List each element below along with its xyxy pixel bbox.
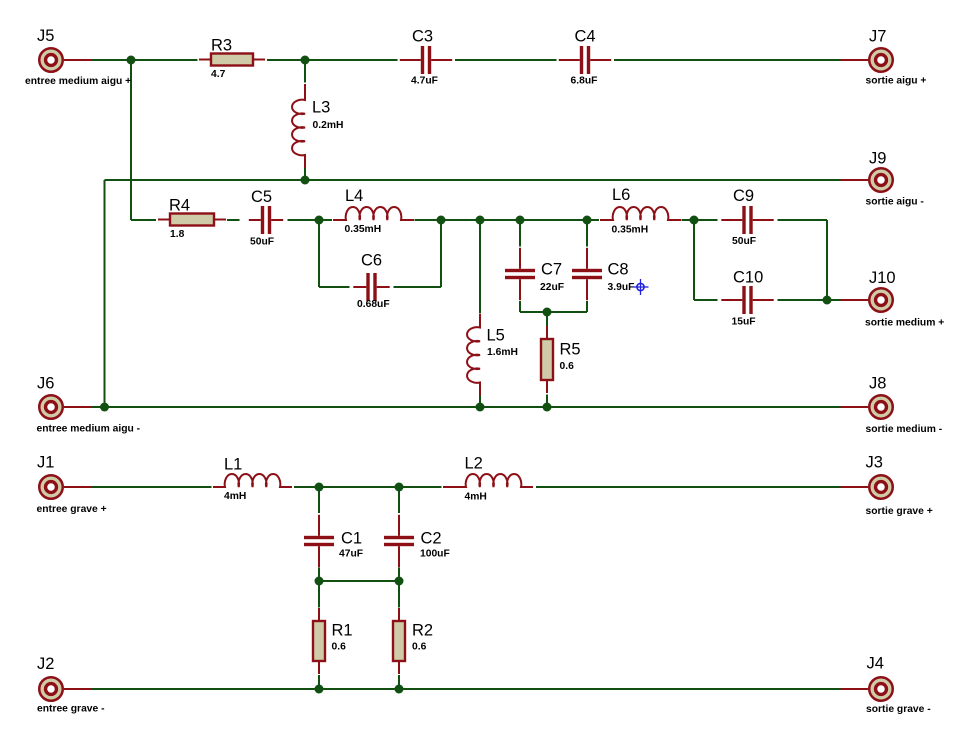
wire node B to L4 (319, 219, 332, 221)
connector J9 (869, 168, 893, 192)
label C3 (412, 28, 433, 46)
value R4 = 1.8 (170, 229, 185, 240)
wire R2 to rowI (398, 675, 400, 689)
inductor L1 (213, 474, 292, 487)
wire vertical x694 down to rowD (693, 220, 695, 300)
wire node B down to C6 row (318, 220, 320, 287)
label C4 (575, 28, 596, 46)
svg-text:C8: C8 (608, 261, 629, 279)
svg-text:sortie grave +: sortie grave + (866, 506, 933, 517)
wire node I down to C1 (318, 487, 320, 513)
svg-text:4.7: 4.7 (211, 69, 226, 80)
connector J7 pin (841, 59, 869, 61)
wire L6 to node G (682, 219, 695, 221)
capacitor C4 (559, 46, 611, 74)
connector J5 pin (64, 59, 92, 61)
wire R1 to rowI (318, 675, 320, 689)
value R2 = 0.6 (412, 642, 427, 653)
wire vertical x104 rowB to rowF (104, 180, 106, 407)
value R5 = 0.6 (560, 361, 575, 372)
connector J1 (39, 475, 63, 499)
svg-text:4mH: 4mH (465, 492, 487, 503)
svg-text:1.6mH: 1.6mH (487, 347, 518, 358)
junction node A (131,60) (127, 56, 136, 65)
svg-text:J1: J1 (37, 454, 54, 472)
resistor R1 (313, 608, 325, 674)
label J7 (869, 28, 886, 46)
svg-text:sortie grave -: sortie grave - (866, 704, 931, 715)
junction node F (587,220) (583, 216, 592, 225)
wire vertical x827 down to rowD (826, 220, 828, 300)
resistor R5 (541, 326, 553, 393)
label C9 (733, 187, 754, 205)
junction node H (547,312) (543, 308, 552, 317)
svg-text:J3: J3 (866, 454, 883, 472)
label J7 description (866, 76, 927, 87)
wire C10 to J10 (778, 299, 842, 301)
label R3 (211, 37, 232, 55)
capacitor C7 (505, 248, 535, 300)
svg-text:0.6: 0.6 (560, 361, 575, 372)
junction node D (480,220) (476, 216, 485, 225)
connector J3 pin (841, 486, 869, 488)
connector J5 (39, 48, 63, 72)
svg-text:R5: R5 (560, 341, 581, 359)
label C1 (341, 530, 362, 548)
svg-text:sortie aigu +: sortie aigu + (866, 76, 927, 87)
connector J6 (39, 395, 63, 419)
capacitor C6 (353, 273, 389, 301)
label L5 (487, 327, 505, 345)
svg-text:4.7uF: 4.7uF (411, 76, 438, 87)
value L4 = 0.35mH (345, 224, 382, 235)
value L6 = 0.35mH (612, 225, 649, 236)
junction node E (520,220) (516, 216, 525, 225)
wire C6 row right (394, 286, 442, 288)
label C2 (421, 530, 442, 548)
svg-text:22uF: 22uF (540, 282, 564, 293)
wire rowF: J6 to J8 (92, 406, 842, 408)
wire node D down to L5 (479, 220, 481, 313)
connector J1 pin (64, 486, 92, 488)
wire node C to node D (441, 219, 480, 221)
connector J2 (39, 677, 63, 701)
label J8 description (866, 424, 943, 435)
value C7 = 22uF (540, 282, 564, 293)
wire node D to node E (480, 219, 520, 221)
connector J4 (869, 677, 893, 701)
svg-text:C2: C2 (421, 530, 442, 548)
junction node I (319,487) (315, 483, 324, 492)
svg-text:15uF: 15uF (732, 317, 756, 328)
svg-text:J2: J2 (37, 655, 54, 673)
connector J4 pin (841, 688, 869, 690)
svg-text:sortie medium +: sortie medium + (865, 318, 944, 329)
capacitor C3 (400, 46, 452, 74)
capacitor C1 (304, 515, 334, 567)
svg-text:R1: R1 (332, 622, 353, 640)
wire rowD to C10 (694, 299, 718, 301)
svg-text:entree grave -: entree grave - (37, 704, 105, 715)
svg-text:L4: L4 (345, 187, 363, 205)
label J10 description (865, 318, 944, 329)
connector J8 (869, 395, 893, 419)
value C10 = 15uF (732, 317, 756, 328)
svg-text:L6: L6 (612, 186, 630, 204)
svg-text:L3: L3 (312, 99, 330, 117)
connector J2 pin (64, 688, 92, 690)
wire node E to node F (520, 219, 587, 221)
value L1 = 4mH (224, 491, 246, 502)
wire node K down to R1 (318, 581, 320, 608)
svg-text:entree grave +: entree grave + (37, 504, 107, 515)
svg-text:C7: C7 (541, 261, 562, 279)
label C7 (541, 261, 562, 279)
label C8 (608, 261, 629, 279)
wire node J to L2 (399, 486, 442, 488)
junction node K (319,581) (315, 577, 324, 586)
svg-text:50uF: 50uF (732, 236, 756, 247)
label R4 (169, 197, 190, 215)
wire C1 to node K (318, 568, 320, 582)
wire L3 to rowB (304, 168, 306, 181)
svg-text:47uF: 47uF (339, 549, 363, 560)
svg-text:J9: J9 (869, 150, 886, 168)
label J10 (869, 269, 896, 287)
capacitor C9 (721, 206, 773, 234)
label R1 (332, 622, 353, 640)
inductor L5 (467, 314, 480, 396)
svg-text:R3: R3 (211, 37, 232, 55)
svg-text:L1: L1 (224, 456, 242, 474)
svg-text:0.6: 0.6 (412, 642, 427, 653)
junction rowI R2 (399,689) (395, 685, 404, 694)
value R1 = 0.6 (332, 642, 347, 653)
label J2 description (37, 704, 105, 715)
svg-text:J6: J6 (37, 375, 54, 393)
svg-text:C4: C4 (575, 28, 596, 46)
wire C8 to rowE (586, 301, 588, 312)
wire rowE across (520, 311, 587, 313)
junction node J (399,487) (395, 483, 404, 492)
capacitor C2 (384, 515, 414, 567)
wire node G to C9 (694, 219, 718, 221)
label L1 (224, 456, 242, 474)
connector J7 (869, 48, 893, 72)
wire L2 to J3 (536, 486, 841, 488)
svg-text:50uF: 50uF (250, 237, 274, 248)
capacitor C5 (249, 206, 283, 234)
junction node L (399,581) (395, 577, 404, 586)
connector J3 (869, 475, 893, 499)
svg-text:C6: C6 (361, 252, 382, 270)
resistor R2 (393, 608, 405, 674)
wire vertical node131 down (130, 60, 132, 220)
inductor L2 (443, 474, 533, 487)
label J4 description (866, 704, 931, 715)
svg-text:J10: J10 (869, 269, 896, 287)
svg-text:R2: R2 (412, 622, 433, 640)
label J6 (37, 375, 54, 393)
junction L3 bottom (305,180) (301, 176, 310, 185)
connector J10 (869, 288, 893, 312)
svg-text:0.35mH: 0.35mH (345, 224, 382, 235)
connector J10 pin (841, 299, 869, 301)
wire net A5: C4 to J7 (614, 59, 841, 61)
label J3 description (866, 506, 933, 517)
svg-text:0.35mH: 0.35mH (612, 225, 649, 236)
wire C6 row up to node C (440, 220, 442, 287)
svg-text:100uF: 100uF (420, 549, 450, 560)
wire node J down to C2 (398, 487, 400, 513)
label C10 (733, 269, 763, 287)
value C6 = 0.68uF (357, 299, 390, 310)
resistor R4 (158, 214, 226, 226)
svg-text:J5: J5 (37, 27, 54, 45)
inductor L4 (333, 207, 414, 220)
svg-text:0.68uF: 0.68uF (357, 299, 390, 310)
label R2 (412, 622, 433, 640)
svg-text:6.8uF: 6.8uF (571, 76, 598, 87)
value R3 = 4.7 (211, 69, 226, 80)
capacitor C10 (721, 286, 773, 314)
wire L5 to rowF (479, 396, 481, 408)
wire rowH across (319, 580, 399, 582)
label J8 (869, 375, 886, 393)
wire node A down to L3 (304, 60, 306, 83)
wire C6 row left (319, 286, 350, 288)
wire net A4: C3 to C4 (455, 59, 557, 61)
label J6 description (37, 424, 141, 435)
wire R4 to C5 (227, 219, 240, 221)
value C5 = 50uF (250, 237, 274, 248)
wire net A3: node A to C3 (305, 59, 398, 61)
wire C5 to node B (288, 219, 320, 221)
junction node G (694,220) (690, 216, 699, 225)
wire net B1: corner to J9 (105, 179, 842, 181)
svg-text:C5: C5 (251, 188, 272, 206)
svg-text:entree medium aigu +: entree medium aigu + (25, 76, 131, 87)
inductor L3 (292, 84, 305, 168)
svg-text:entree medium aigu -: entree medium aigu - (37, 424, 141, 435)
connector J8 pin (841, 406, 869, 408)
label L6 (612, 186, 630, 204)
value L5 = 1.6mH (487, 347, 518, 358)
inductor L6 (600, 207, 681, 220)
svg-text:J4: J4 (867, 655, 884, 673)
junction J10 node (827,300) (823, 296, 832, 305)
wire node L down to R2 (398, 581, 400, 608)
value C3 = 4.7uF (411, 76, 438, 87)
label J1 (37, 454, 54, 472)
wire node I to node J (319, 486, 399, 488)
capacitor C8 (572, 248, 602, 300)
wire R5 to rowF (546, 395, 548, 408)
svg-text:sortie aigu -: sortie aigu - (866, 197, 925, 208)
value C2 = 100uF (420, 549, 450, 560)
svg-text:0.2mH: 0.2mH (313, 120, 344, 131)
label J2 (37, 655, 54, 673)
value C9 = 50uF (732, 236, 756, 247)
wire rowI: J2 to J4 (92, 688, 842, 690)
connector J9 pin (841, 179, 869, 181)
wire C7 to rowE (519, 301, 521, 312)
junction rowI R1 (319,689) (315, 685, 324, 694)
svg-text:C9: C9 (733, 187, 754, 205)
label C6 (361, 252, 382, 270)
label J1 description (37, 504, 107, 515)
junction node L3 top (305,60) (301, 56, 310, 65)
svg-text:1.8: 1.8 (170, 229, 185, 240)
wire node E down to C7 (519, 220, 521, 247)
value C1 = 47uF (339, 549, 363, 560)
connector J6 pin (64, 406, 92, 408)
label J9 (869, 150, 886, 168)
svg-text:J8: J8 (869, 375, 886, 393)
wire L4 to node C (415, 219, 442, 221)
svg-text:C3: C3 (412, 28, 433, 46)
wire net A2: R3 to node A (267, 59, 305, 61)
junction rowF R5 (547,407) (543, 403, 552, 412)
junction rowF L5 (480,407) (476, 403, 485, 412)
label J9 description (866, 197, 925, 208)
svg-text:C1: C1 (341, 530, 362, 548)
wire rowG: J1 to L1 (92, 486, 212, 488)
svg-text:sortie medium -: sortie medium - (866, 424, 943, 435)
junction node C (441,220) (437, 216, 446, 225)
svg-text:4mH: 4mH (224, 491, 246, 502)
label J3 (866, 454, 883, 472)
svg-text:0.6: 0.6 (332, 642, 347, 653)
resistor R3 (199, 54, 265, 66)
label L4 (345, 187, 363, 205)
value C8 = 3.9uF (608, 282, 635, 293)
svg-text:L2: L2 (465, 455, 483, 473)
label J5 description (25, 76, 131, 87)
svg-text:J7: J7 (869, 28, 886, 46)
wire node F down to C8 (586, 220, 588, 247)
value L2 = 4mH (465, 492, 487, 503)
label C5 (251, 188, 272, 206)
junction node B (319,220) (315, 216, 324, 225)
svg-text:3.9uF: 3.9uF (608, 282, 635, 293)
wire C9 to corner x827 (778, 219, 828, 221)
label J5 (37, 27, 54, 45)
svg-text:L5: L5 (487, 327, 505, 345)
value C4 = 6.8uF (571, 76, 598, 87)
wire node F to L6 (587, 219, 599, 221)
label L2 (465, 455, 483, 473)
junction rowF x104 (104.5,407) (100, 403, 109, 412)
origin marker (blue crosshair near C8 value) (633, 279, 649, 295)
label J4 (867, 655, 884, 673)
label L3 (312, 99, 330, 117)
svg-text:R4: R4 (169, 197, 190, 215)
value L3 = 0.2mH (313, 120, 344, 131)
wire node H down to R5 (546, 312, 548, 326)
label R5 (560, 341, 581, 359)
wire L1 to node I (294, 486, 319, 488)
svg-text:C10: C10 (733, 269, 763, 287)
wire C2 to node L (398, 568, 400, 582)
wire net A1: J5 to R3 (92, 59, 198, 61)
wire rowC start (131, 219, 156, 221)
